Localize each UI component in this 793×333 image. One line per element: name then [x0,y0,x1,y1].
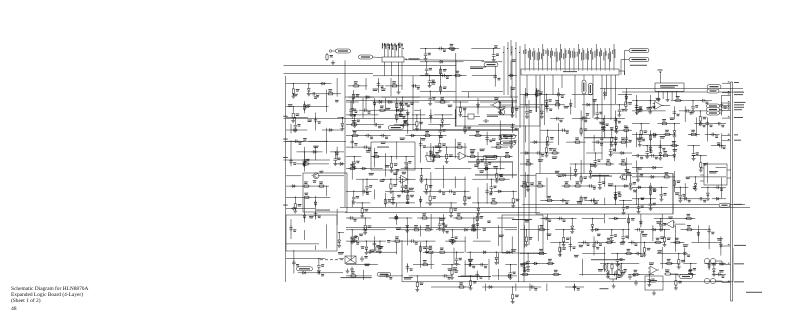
wire [592,174,609,176]
U100 pin 19 top [604,48,606,69]
value label [400,124,405,127]
wire [632,123,650,125]
capacitor C167 [429,96,431,98]
wire [409,275,452,277]
U100 pin 15 top [586,48,588,69]
value label [314,95,318,98]
label pill SPK AUDIO [377,272,391,276]
wire [720,178,722,199]
wire [467,156,512,158]
ground [294,209,296,212]
resistor R156 [470,229,472,231]
capacitor C104 [303,158,305,160]
wire [294,118,296,124]
ground [559,252,561,255]
ground [303,162,305,165]
wire [565,286,584,288]
capacitor C138 [351,139,353,141]
junction [429,191,430,192]
capacitor C194 [692,104,694,106]
wire [420,48,459,50]
wire [351,98,353,119]
junction [293,83,294,84]
note HI SPEED RX DATA DISCRIMINATOR [468,161,513,164]
resistor R183 [620,163,622,165]
capacitor C109 [315,212,317,214]
value label [494,44,498,47]
wire long horizontal bus y=207.5 [340,207,750,209]
ground [426,249,428,252]
resistor R196 [699,115,701,117]
junction [644,242,645,243]
diode CR102 [322,82,324,85]
resistor R212 [664,236,666,238]
ground [485,166,487,169]
IC U110 audio PA box [704,164,727,185]
wire center vertical divider x=518.5 [518,128,520,282]
wire [639,134,641,137]
U100 pin bottom 3 [539,75,541,174]
wire [499,120,501,144]
wire [374,98,376,123]
wire [384,98,386,111]
diode CR121 [399,109,402,111]
wire [477,152,479,169]
resistor R135 [425,183,427,185]
note 3 KHZ LOW-PASS FILTER [591,258,625,261]
capacitor C136 [448,190,450,192]
wire [407,109,409,134]
wire [286,117,308,119]
capacitor C219 [720,102,722,104]
ground [493,57,495,60]
wire [464,109,466,134]
wire [649,130,651,153]
wire [471,48,500,50]
wire [636,160,638,172]
ground [707,196,709,199]
wire [679,187,681,193]
ground [341,126,343,129]
wire [453,217,483,219]
resistor R214 [559,245,561,247]
value label [511,58,516,61]
capacitor C157 [442,275,444,277]
diode CR148 [507,251,509,254]
junction [616,118,617,119]
wire [700,156,702,161]
resistor R224 [521,273,523,275]
wire [504,135,518,137]
resistor R218 [673,241,675,243]
wire [365,96,367,110]
wire horizontal bus y=118.7 [284,118,457,120]
value label [511,248,516,251]
wire [628,214,630,239]
wire [307,93,341,95]
value label [439,135,444,138]
ground [611,238,613,241]
connector P1 pin DATA DET [722,94,731,96]
wire [705,133,720,135]
value label [555,170,560,173]
capacitor C225 [636,229,638,231]
wire [636,188,638,205]
resistor R201 [670,145,672,147]
resistor R204 [663,176,665,178]
wire [308,84,310,87]
wire [338,232,344,234]
wire [351,136,353,149]
wire [582,104,627,106]
diode CR101 [307,89,310,91]
ground [625,107,627,110]
wire [346,217,371,219]
wire [591,229,630,231]
capacitor C213 [683,198,685,200]
capacitor C228 [629,241,631,243]
wire [678,254,680,258]
U100 pin 11 top [569,48,571,69]
capacitor C234 [648,278,650,280]
wire [720,95,722,116]
resistor R186 [536,185,538,187]
wire [674,223,685,225]
wire [315,196,317,220]
wire [625,158,627,181]
wire [318,175,344,177]
diode CR120 [389,101,391,104]
junction [485,156,486,157]
value label [620,241,625,244]
wire [494,66,496,87]
capacitor C220 [543,218,545,220]
wire Q120 to C123 [612,279,614,282]
wire [401,168,431,170]
wire [488,259,490,280]
wire [640,214,642,228]
wire [461,275,481,277]
wire [498,269,500,280]
wire [555,229,575,231]
resistor R168 [454,74,456,76]
label pill DIM CONTROL [707,85,721,89]
transistor array Q120 [608,275,619,280]
wire [582,253,605,255]
wire [286,207,315,209]
note part number BPS-XXX-GB-A [746,291,762,294]
value label [719,262,724,265]
note J2 pin labels [382,43,383,49]
wire [546,284,548,292]
junction [637,167,638,168]
capacitor C176 [602,123,604,125]
wire [296,163,329,165]
U100 pin bottom 10 [601,75,603,160]
resistor R157 [393,240,395,242]
resistor R120 row [604,263,606,265]
capacitor C223 [611,233,613,235]
wire [420,109,422,130]
wire [591,219,593,223]
diode CR179 [673,155,676,157]
wire [464,236,466,252]
wire [326,186,328,197]
diode CR111 [338,240,341,242]
wire [720,236,722,255]
diode CR109 [292,185,294,188]
connector P1 pin SW B+ [722,140,731,142]
capacitor C107 [290,225,292,227]
wire [615,192,617,205]
wire [540,200,569,202]
wire [417,217,446,219]
wire right vertical feed x=529 [528,100,530,245]
diode CR182 [615,217,617,220]
ground [547,142,549,145]
wire [416,276,418,281]
junction [470,252,471,253]
wire [511,102,513,106]
wire [529,284,531,292]
capacitor C117 [350,108,352,110]
resistor R163 [416,281,418,283]
capacitor C158 [373,241,375,243]
wire [352,90,354,104]
wire [584,200,599,202]
capacitor C152 [456,257,458,259]
value label [409,187,414,190]
value label [633,189,637,192]
ground [495,260,497,263]
block 3 KHZ HIGH-PASS FILTER box [502,215,543,253]
diode CR175 [638,186,640,189]
wire [470,276,472,279]
wire [636,101,638,106]
wire [607,264,609,270]
diode CR194 [489,286,491,289]
U100 pin bottom 4 [544,75,546,125]
ground [643,252,645,255]
value label [552,156,557,159]
wire [473,218,475,222]
wire [673,106,675,119]
capacitor C187 [590,200,592,202]
ground [490,189,492,192]
jack J4 tip circle [710,278,715,283]
wire [580,160,582,184]
label pill TEST POINT [707,111,720,115]
wire [315,245,317,250]
feedback box U122 [645,276,663,290]
ground [602,127,604,130]
junction [402,179,403,180]
wire [615,136,617,152]
diode CR118 [396,109,398,112]
wire [425,179,427,183]
value label [293,93,298,96]
wire [440,66,442,95]
ground [416,287,418,290]
ground [638,209,640,212]
capacitor C115 [483,120,485,122]
wire long horizontal y=100.3 [346,99,517,101]
junction [426,61,427,62]
value label [670,117,675,120]
connector P1 pin 7.5V BATT [722,117,731,119]
resistor R104 [302,163,304,165]
resistor R190 [536,90,538,92]
wire [382,96,420,98]
wire [296,151,322,153]
resistor R142 [450,206,452,208]
ground [499,110,501,113]
diode CR180 [571,226,574,228]
resistor R153 [455,217,457,219]
wire [649,95,651,104]
resistor R115 [459,106,461,108]
diode CR132 [373,102,376,104]
resistor R164 [470,279,472,281]
wire [640,233,642,255]
connector P1 pin AUX OUTPUT [722,282,731,284]
diode CR189 [712,269,715,271]
wire [315,146,317,160]
value label [440,217,445,220]
value label [686,176,691,179]
wire [694,123,726,125]
wire [477,203,479,207]
wire [346,124,384,126]
diode CR147 [495,257,498,259]
wire [559,248,561,257]
value label [499,234,504,237]
wire [451,230,453,236]
note TO OPT text [600,287,609,290]
capacitor C133 [353,195,355,197]
diode CR176 [706,193,709,195]
junction [365,217,366,218]
wire [467,251,513,253]
wire [608,185,632,187]
ground [630,186,632,189]
wire [286,106,329,108]
connector J2 pin 6 [401,44,403,57]
wire [318,259,320,264]
wire [335,163,344,165]
wire [520,185,546,187]
wire [711,145,726,147]
wire [586,129,601,131]
wire [527,254,529,260]
junction [391,156,392,157]
wire main horizontal bus y=65.3 [284,64,457,66]
value label [564,105,569,108]
wire [303,147,305,172]
wire [390,179,392,182]
resistor R229 [628,217,630,219]
wire [604,115,606,138]
wire [443,214,445,233]
wire [684,106,686,122]
note 300 HZ HIGH-PASS FILTER [590,175,612,178]
wire [429,91,431,96]
wire [572,118,590,120]
wire [580,110,582,136]
resistor R110 [352,85,354,87]
value label [380,178,385,181]
net stub label y=207.5 [283,204,288,207]
value label [610,126,614,129]
wire [546,99,548,112]
ground [496,178,498,181]
wire [511,98,513,114]
junction [700,155,701,156]
junction [713,263,714,264]
wire [520,104,565,106]
note 5V REGULATOR [377,146,389,149]
wire [511,123,513,132]
wire [462,90,504,92]
junction [615,185,616,186]
wire [326,225,328,249]
ground [308,91,310,94]
wire [430,109,432,123]
wire [618,93,632,95]
wire [561,185,596,187]
resistor R206 [649,188,651,190]
diode CR172 [653,166,655,169]
value label [307,119,312,122]
wire [396,171,398,185]
wire [446,147,448,152]
wire [546,178,548,199]
wire [643,242,645,246]
ground [405,165,407,168]
wire [525,88,527,106]
wire [486,132,488,146]
note LO SPEED RCV DATA FILTERS [584,136,617,139]
note ACCESS DISC [630,64,647,67]
junction [649,274,650,275]
terminal circle CBL [329,50,331,52]
junction [362,202,363,203]
resistor R213 [685,229,687,231]
value label [600,136,604,139]
capacitor C132 [490,185,492,187]
wire pill to P1 FREQ CONTROL [720,105,723,107]
wire [512,287,514,293]
diode CR142 [365,247,368,249]
ground [379,249,381,252]
jack J3 tip circle [710,258,715,263]
junction [675,274,676,275]
U105 pins down [658,91,660,97]
transistor Q102 [353,236,359,242]
wire [637,168,639,173]
connector J2 [382,57,404,62]
resistor R169 [440,68,442,70]
capacitor C209 [679,193,681,195]
wire vertical net x=673 block edge [672,174,674,215]
capacitor C168 [494,74,496,76]
label pill AUX [680,275,693,279]
junction [547,130,548,131]
wire [510,136,512,140]
Q120 labels [598,268,603,271]
wire [315,113,317,131]
wire [454,109,456,127]
